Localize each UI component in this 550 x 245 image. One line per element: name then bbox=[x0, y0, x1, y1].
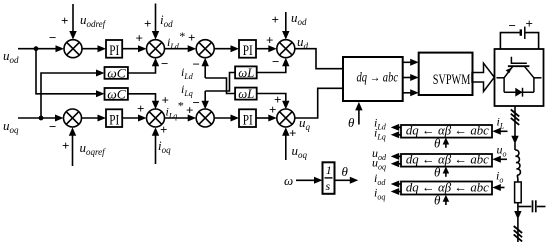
summing junction S2 bbox=[147, 40, 165, 58]
three-phase marks top bbox=[511, 110, 519, 117]
svg-text:θ: θ bbox=[434, 136, 441, 151]
capacitor tail wire bbox=[537, 206, 546, 208]
inductor Lf bbox=[515, 150, 520, 175]
three-phase marks bottom bbox=[514, 226, 522, 233]
svg-text:−: − bbox=[272, 54, 279, 69]
sign plus into S3 bbox=[188, 30, 195, 45]
battery wire bbox=[500, 33, 519, 49]
svg-text:PI: PI bbox=[109, 43, 119, 59]
label theta 2 bbox=[434, 165, 441, 180]
wire u_od arrow to S4 bbox=[285, 12, 287, 32]
svg-text:ωL: ωL bbox=[238, 86, 254, 101]
label u_oqref bbox=[80, 140, 107, 157]
wire out i_Lq bbox=[398, 134, 401, 136]
svg-text:SVPWM: SVPWM bbox=[433, 72, 471, 88]
block dq to abc bbox=[343, 57, 403, 101]
wire theta to block1 bbox=[445, 143, 447, 148]
sign plus i_od bbox=[144, 16, 151, 31]
wire PI1 to S2 bbox=[122, 48, 139, 50]
svg-text:+: + bbox=[136, 31, 143, 46]
IGBT left leg with arrow bbox=[504, 66, 513, 78]
block dq-ab-abc 1 bbox=[401, 125, 492, 138]
wire u_odref arrow bbox=[72, 4, 74, 32]
wire u_oq main bbox=[18, 117, 56, 119]
svg-text:PI: PI bbox=[243, 112, 253, 128]
integrator 1/s bbox=[323, 162, 335, 194]
svg-text:s: s bbox=[326, 179, 331, 193]
label theta at dqabc bbox=[348, 115, 355, 130]
svg-text:+: + bbox=[62, 138, 69, 153]
svg-text:−: − bbox=[161, 56, 168, 71]
IGBT bottom wire bbox=[504, 91, 534, 93]
wire u_od main bbox=[18, 48, 57, 50]
summing junction S6 bbox=[147, 109, 165, 127]
wire inverter down bbox=[514, 106, 516, 137]
block arrow to inverter bbox=[472, 63, 494, 91]
label theta out bbox=[342, 164, 349, 179]
wire i_oq arrow bbox=[155, 136, 157, 165]
wire wC2 to S6 bbox=[128, 94, 156, 101]
summing junction S8 bbox=[277, 109, 295, 127]
sign minus battery bbox=[509, 18, 516, 33]
wire wL1 to S4 bbox=[257, 66, 286, 73]
label i_Lq* bbox=[166, 99, 184, 121]
block SVPWM bbox=[419, 53, 473, 95]
wire out i_od bbox=[398, 183, 401, 185]
svg-text:θ: θ bbox=[434, 165, 441, 180]
sign plus battery bbox=[526, 16, 533, 31]
sign minus at S1 bbox=[49, 30, 56, 45]
label u_oq bbox=[3, 118, 19, 135]
svg-text:−: − bbox=[193, 57, 200, 72]
label u_od out bbox=[372, 146, 387, 162]
sign plus PI4 bbox=[269, 102, 276, 117]
sign plus PI2 bbox=[266, 33, 273, 48]
wire dqabc to svpwm 3 bbox=[403, 92, 411, 94]
wire theta to block2 bbox=[445, 172, 447, 177]
sign plus wL2 bbox=[274, 92, 281, 107]
svg-text:1: 1 bbox=[326, 163, 332, 177]
svg-text:+: + bbox=[526, 16, 533, 31]
wire u_oqref arrow bbox=[72, 136, 74, 167]
summing junction S4 bbox=[277, 40, 295, 58]
wire out u_od bbox=[398, 155, 401, 157]
label u_q bbox=[299, 115, 311, 132]
IGBT right stub bbox=[534, 77, 542, 79]
resistor load bbox=[515, 182, 522, 203]
wire wC1 to S2 bbox=[128, 66, 156, 73]
summing junction S7 bbox=[196, 109, 214, 127]
label u_oq at S8 bbox=[292, 143, 308, 160]
wire theta to dqabc bbox=[358, 110, 360, 125]
gain wL2 bbox=[235, 88, 257, 100]
wire u_q to dqabc bbox=[295, 88, 343, 118]
sign plus u_oq bbox=[289, 126, 296, 141]
svg-text:dq ← αβ ← abc: dq ← αβ ← abc bbox=[406, 122, 489, 137]
battery long plate bbox=[524, 27, 526, 39]
controller PI4 bbox=[239, 109, 256, 127]
wire i_Ld to wL2 bbox=[205, 78, 235, 94]
sign minus i_Lq bbox=[193, 95, 200, 110]
capacitor plates bbox=[532, 200, 534, 212]
sign plus u_oqref bbox=[62, 138, 69, 153]
sign plus into S7 bbox=[186, 103, 193, 118]
label i_Ld out bbox=[374, 116, 387, 132]
wire u_d to dqabc bbox=[295, 49, 343, 69]
summing junction S5 bbox=[64, 109, 82, 127]
wire u_oq arrow to S8 bbox=[285, 136, 287, 161]
label theta 1 bbox=[434, 136, 441, 151]
inverter box bbox=[495, 49, 544, 106]
sign minus wC1 bbox=[161, 56, 168, 71]
node u_od junction bbox=[34, 46, 39, 51]
sign plus i_oq bbox=[160, 122, 167, 137]
svg-text:dq ← αβ ← abc: dq ← αβ ← abc bbox=[406, 151, 489, 166]
label u_o bbox=[497, 143, 507, 159]
sign plus PI1 bbox=[136, 31, 143, 46]
wire S7 to PI4 bbox=[214, 117, 231, 119]
summing junction S3 bbox=[196, 40, 214, 58]
svg-text:−: − bbox=[49, 30, 56, 45]
wire wL2 to S8 bbox=[257, 94, 286, 102]
wire resistor to node bbox=[517, 203, 519, 207]
IGBT left drop bbox=[503, 78, 505, 92]
wire i_L stub bbox=[500, 130, 508, 132]
svg-text:+: + bbox=[61, 13, 68, 28]
label i_Ld bbox=[181, 65, 194, 81]
wire omega to integrator bbox=[296, 179, 315, 181]
wire theta out bbox=[335, 179, 351, 181]
svg-text:−: − bbox=[193, 95, 200, 110]
label u_oq out bbox=[372, 156, 386, 172]
label i_od out bbox=[374, 171, 386, 187]
battery short plate bbox=[520, 29, 522, 35]
svg-text:+: + bbox=[160, 122, 167, 137]
svg-text:+: + bbox=[289, 126, 296, 141]
block dq-ab-abc 3 bbox=[401, 182, 492, 195]
IGBT body bar bbox=[508, 65, 530, 67]
svg-text:θ: θ bbox=[342, 164, 349, 179]
wire i_Lq to wL1 bbox=[205, 73, 235, 92]
wire i_Lq feedback to S7 bbox=[204, 91, 206, 101]
label u_od at S4 bbox=[291, 10, 307, 27]
IGBT left stub bbox=[497, 77, 505, 79]
sign plus u_od bbox=[272, 12, 279, 27]
svg-text:+: + bbox=[272, 12, 279, 27]
svg-text:θ: θ bbox=[348, 115, 355, 130]
gain wC2 bbox=[105, 88, 128, 100]
sign plus u_odref bbox=[61, 13, 68, 28]
node u_oq junction bbox=[39, 116, 44, 121]
capacitor Cf wire bbox=[518, 206, 531, 208]
wire u_od to wC2 bbox=[36, 49, 97, 94]
wire S3 to PI2 bbox=[214, 48, 231, 50]
controller PI3 bbox=[106, 109, 122, 127]
label omega bbox=[284, 173, 293, 188]
sign plus wC2 bbox=[162, 93, 169, 108]
label i_Lq out bbox=[374, 126, 386, 142]
block dq-ab-abc 2 bbox=[401, 154, 492, 167]
gain wC1 bbox=[105, 67, 128, 79]
label theta 3 bbox=[434, 193, 441, 208]
wire S2 to S3 bbox=[165, 48, 189, 50]
sign minus at S5 bbox=[49, 119, 56, 134]
label i_o bbox=[496, 169, 503, 185]
label u_od bbox=[3, 48, 19, 65]
svg-text:−: − bbox=[49, 119, 56, 134]
label i_od bbox=[160, 12, 173, 29]
diode bbox=[515, 88, 522, 97]
wire theta to block3 bbox=[445, 200, 447, 205]
wire out i_Ld bbox=[398, 126, 401, 128]
svg-text:+: + bbox=[144, 16, 151, 31]
sign minus wL1 bbox=[272, 54, 279, 69]
wire i_Ld feedback to S3 bbox=[204, 66, 206, 78]
wire u_oq to wC1 bbox=[41, 73, 97, 118]
IGBT gate bbox=[511, 57, 526, 63]
svg-text:ωL: ωL bbox=[238, 65, 254, 80]
wire S5 to PI3 bbox=[82, 117, 99, 119]
svg-text:ωC: ωC bbox=[107, 66, 126, 81]
IGBT right drop bbox=[533, 78, 535, 92]
controller PI1 bbox=[106, 40, 122, 58]
wire u_o stub bbox=[500, 158, 507, 160]
label i_L bbox=[497, 115, 505, 131]
wire dqabc to svpwm 2 bbox=[403, 77, 411, 79]
label u_d bbox=[297, 34, 309, 51]
svg-text:ωC: ωC bbox=[107, 87, 126, 102]
svg-text:θ: θ bbox=[434, 193, 441, 208]
svg-text:+: + bbox=[266, 33, 273, 48]
gain wL1 bbox=[235, 66, 257, 78]
svg-text:+: + bbox=[186, 103, 193, 118]
wire dqabc to svpwm 1 bbox=[403, 61, 411, 63]
label i_Ld* bbox=[167, 29, 185, 51]
IGBT right leg bbox=[524, 66, 534, 78]
sign minus i_Ld bbox=[193, 57, 200, 72]
wire i_od arrow bbox=[155, 4, 157, 32]
svg-text:−: − bbox=[509, 18, 516, 33]
controller PI2 bbox=[239, 40, 256, 58]
wire S6 to S7 bbox=[165, 117, 189, 119]
label i_oq out bbox=[374, 186, 385, 202]
svg-text:PI: PI bbox=[109, 112, 119, 128]
svg-text:+: + bbox=[137, 101, 144, 116]
svg-text:dq → abc: dq → abc bbox=[357, 70, 399, 85]
label u_odref bbox=[80, 12, 107, 29]
wire PI2 to S4 bbox=[256, 48, 269, 50]
wire S1 to PI1 bbox=[82, 48, 99, 50]
wire out u_oq bbox=[398, 163, 401, 165]
wire i_o stub bbox=[500, 187, 505, 189]
svg-text:PI: PI bbox=[243, 43, 253, 59]
label i_oq bbox=[158, 138, 171, 155]
label i_Lq bbox=[181, 82, 193, 98]
wire PI3 to S6 bbox=[122, 117, 139, 119]
svg-text:+: + bbox=[188, 30, 195, 45]
svg-text:ω: ω bbox=[284, 173, 293, 188]
wire node down bbox=[517, 207, 519, 212]
svg-text:dq ← αβ ← abc: dq ← αβ ← abc bbox=[406, 179, 489, 194]
wire PI4 to S8 bbox=[256, 117, 269, 119]
svg-text:+: + bbox=[274, 92, 281, 107]
wire out i_oq bbox=[398, 191, 401, 193]
sign plus PI3 bbox=[137, 101, 144, 116]
summing junction S1 bbox=[64, 40, 82, 58]
